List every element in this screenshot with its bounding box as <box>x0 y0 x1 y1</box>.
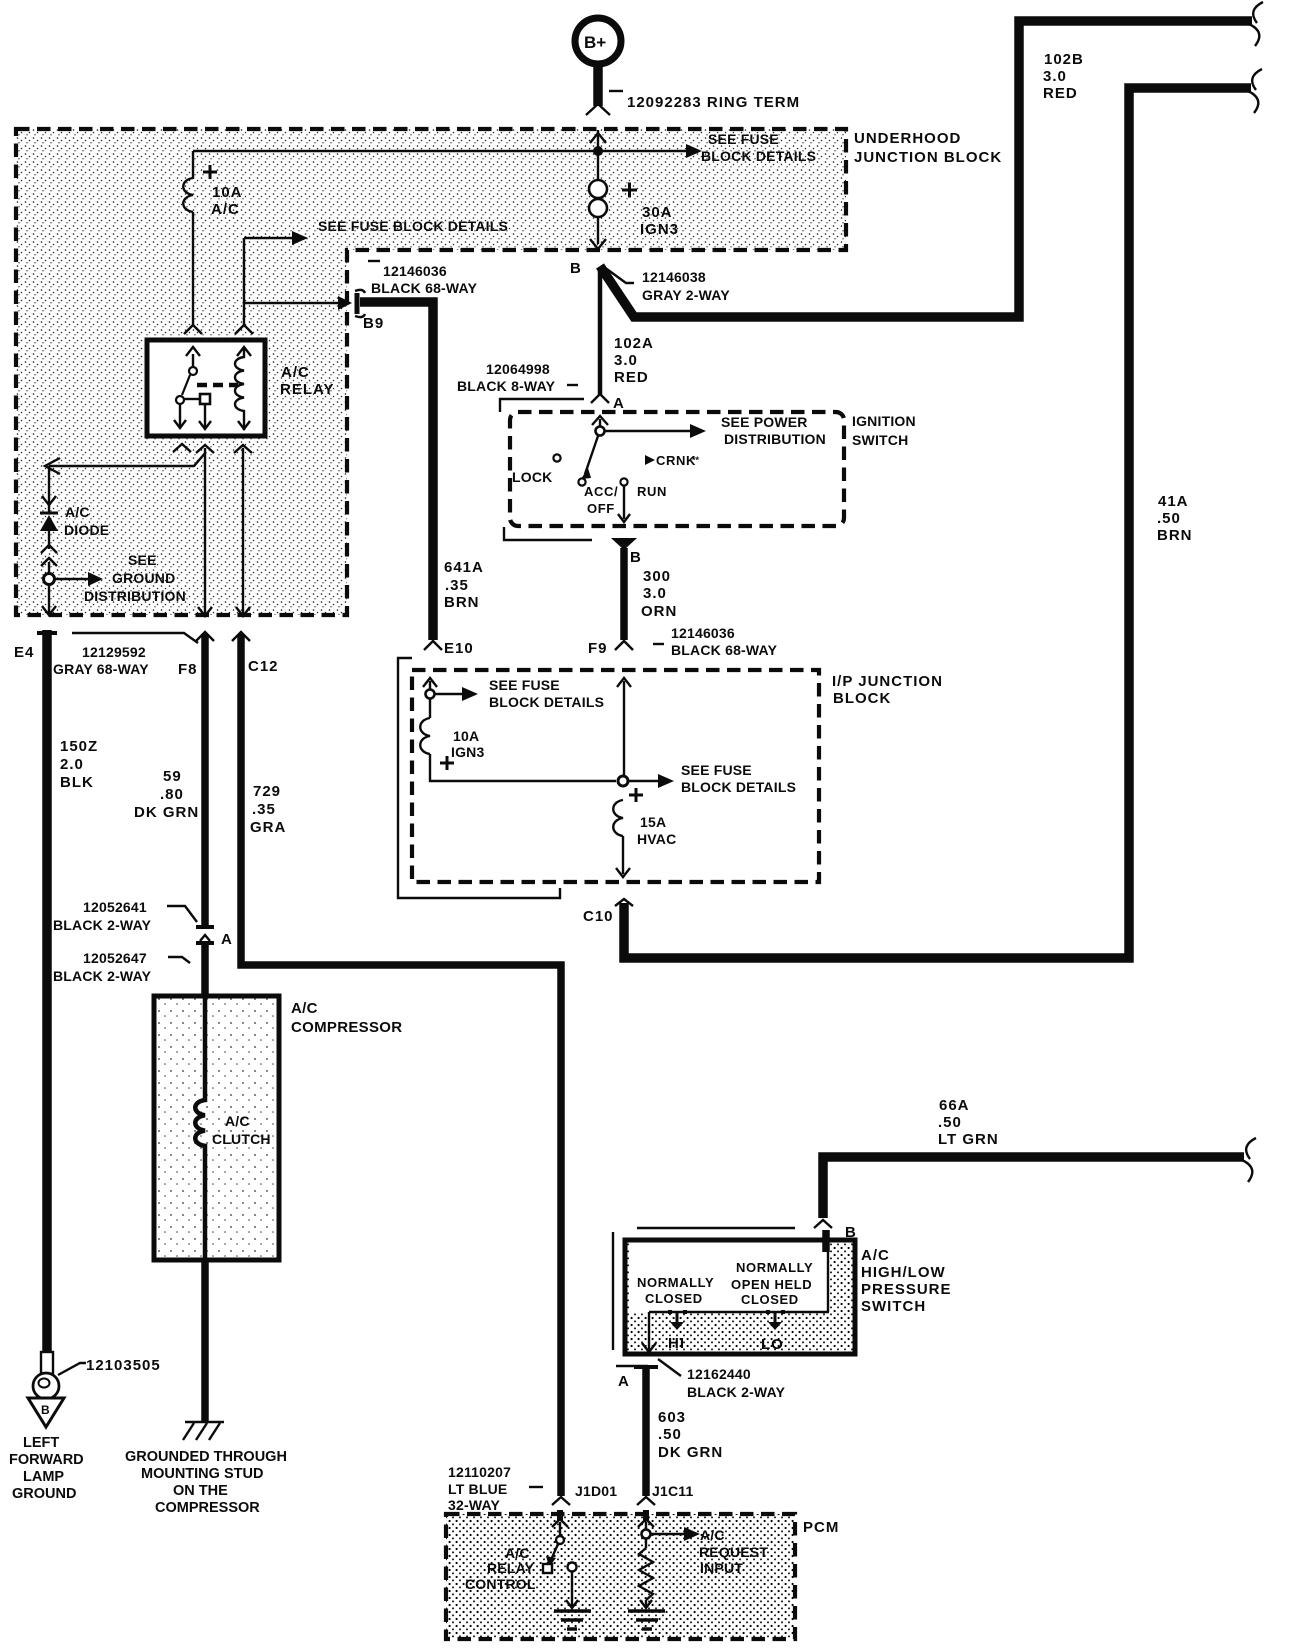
wire 300 ORN ignition B to F9 <box>620 548 628 640</box>
ground symbol PCM right <box>645 1600 647 1606</box>
svg-text:DIODE: DIODE <box>64 522 109 538</box>
svg-text:.50: .50 <box>658 1426 682 1443</box>
svg-text:NORMALLY: NORMALLY <box>637 1275 714 1290</box>
svg-text:12146036: 12146036 <box>383 263 447 279</box>
chassis ground at compressor <box>183 1422 224 1440</box>
svg-text:A/C: A/C <box>700 1527 725 1543</box>
svg-text:F9: F9 <box>588 640 608 657</box>
svg-text:UNDERHOOD: UNDERHOOD <box>854 130 961 147</box>
svg-text:B+: B+ <box>584 33 606 52</box>
PCM relay control switch <box>543 1510 578 1608</box>
svg-text:**: ** <box>692 455 700 465</box>
svg-text:OFF: OFF <box>587 501 615 516</box>
svg-text:SWITCH: SWITCH <box>852 432 908 448</box>
wire 66A LT GRN off-page to pressure switch B <box>823 1157 1244 1218</box>
svg-text:.35: .35 <box>252 801 276 818</box>
flare F9 <box>615 641 633 650</box>
svg-text:HI: HI <box>668 1335 685 1352</box>
svg-text:RELAY: RELAY <box>487 1560 535 1576</box>
diode D1 A/C DIODE <box>40 466 58 573</box>
off-page break symbol 66A <box>1242 1138 1256 1182</box>
contact LO <box>774 1312 777 1322</box>
svg-text:729: 729 <box>253 783 281 800</box>
wire node down to E4 <box>48 584 50 613</box>
svg-text:GROUNDED THROUGH: GROUNDED THROUGH <box>125 1449 287 1465</box>
svg-text:15A: 15A <box>640 814 666 830</box>
svg-text:BLACK 2-WAY: BLACK 2-WAY <box>53 968 152 984</box>
wire E10 leg inside block <box>423 678 437 687</box>
svg-text:BLACK 8-WAY: BLACK 8-WAY <box>457 378 556 394</box>
wire B+ entering block with up arrow <box>590 130 606 180</box>
connector face bracket around I/P block <box>398 658 560 898</box>
svg-text:A: A <box>613 395 625 412</box>
wire 641A BRN from B9 to E10 <box>360 302 433 640</box>
svg-text:3.0: 3.0 <box>614 352 638 369</box>
svg-text:12052641: 12052641 <box>83 899 147 915</box>
svg-text:.50: .50 <box>938 1114 962 1131</box>
arrow see fuse block details (ip lower) <box>628 780 658 782</box>
wire compressor to mounting stud ground <box>201 1258 209 1422</box>
svg-text:A: A <box>618 1373 630 1390</box>
plus mark 15A <box>629 788 643 802</box>
svg-text:10A: 10A <box>453 728 479 744</box>
wire 150Z E4 to left lamp ground <box>42 630 52 1354</box>
svg-text:A/C: A/C <box>65 504 90 520</box>
svg-text:10A: 10A <box>212 184 243 201</box>
svg-text:PRESSURE: PRESSURE <box>861 1281 952 1298</box>
resistor in PCM <box>639 1548 653 1600</box>
svg-text:12064998: 12064998 <box>486 361 550 377</box>
label CRNK <box>645 455 655 465</box>
svg-text:DISTRIBUTION: DISTRIBUTION <box>84 588 186 604</box>
svg-text:BLOCK DETAILS: BLOCK DETAILS <box>701 148 816 164</box>
flare J1D01 <box>552 1497 570 1505</box>
svg-text:B9: B9 <box>363 315 384 332</box>
svg-text:30A: 30A <box>642 204 673 221</box>
svg-text:603: 603 <box>658 1409 686 1426</box>
wire coil feed vertical <box>243 238 245 326</box>
svg-text:SWITCH: SWITCH <box>861 1298 926 1315</box>
wire F9 leg inside block <box>617 678 631 687</box>
arrow see fuse block details (ip upper) <box>435 693 462 695</box>
pressure switch inner white area <box>630 1243 830 1312</box>
svg-text:DK GRN: DK GRN <box>658 1444 723 1461</box>
svg-text:B: B <box>41 1403 50 1417</box>
svg-text:BLK: BLK <box>60 774 94 791</box>
svg-text:BRN: BRN <box>444 594 480 611</box>
wire breaker down to edge with arrow <box>590 218 606 249</box>
label 12129592 GRAY 68-WAY with leader <box>72 633 198 643</box>
svg-text:ACC/: ACC/ <box>584 484 618 499</box>
svg-text:SEE FUSE BLOCK DETAILS: SEE FUSE BLOCK DETAILS <box>318 218 508 234</box>
node junction 15A <box>618 776 628 786</box>
svg-text:RUN: RUN <box>637 484 667 499</box>
underhood junction block stipple fill <box>16 129 846 615</box>
wire 102A RED to ignition switch <box>598 268 603 395</box>
contact HI <box>676 1312 679 1322</box>
PCM dashed box <box>446 1514 795 1639</box>
svg-text:CONTROL: CONTROL <box>465 1576 536 1592</box>
svg-text:IGN3: IGN3 <box>640 221 679 238</box>
svg-text:12052647: 12052647 <box>83 950 147 966</box>
svg-text:RELAY: RELAY <box>280 381 334 398</box>
wire B pin into switch <box>822 1230 830 1252</box>
svg-text:BLACK 68-WAY: BLACK 68-WAY <box>671 642 778 658</box>
svg-text:A/C: A/C <box>281 364 310 381</box>
svg-text:BLOCK DETAILS: BLOCK DETAILS <box>681 779 796 795</box>
svg-text:ORN: ORN <box>641 603 677 620</box>
svg-text:C12: C12 <box>248 658 279 675</box>
wire switch output to A pin <box>648 1312 650 1350</box>
svg-text:BLACK 68-WAY: BLACK 68-WAY <box>371 280 478 296</box>
svg-text:41A: 41A <box>1158 493 1189 510</box>
wire 102B RED thick to off-page <box>600 21 1252 317</box>
svg-text:F8: F8 <box>178 661 198 678</box>
svg-text:102B: 102B <box>1044 51 1084 68</box>
svg-text:A/C: A/C <box>291 1000 318 1017</box>
label 12146036 BLACK 68-WAY (upper) <box>368 260 380 262</box>
svg-text:COMPRESSOR: COMPRESSOR <box>155 1500 260 1516</box>
svg-text:.35: .35 <box>445 577 469 594</box>
connector 12146038 GRAY 2-WAY with leader <box>604 267 634 283</box>
ignition B pin triangle <box>611 538 637 550</box>
flare J1C11 <box>637 1497 655 1505</box>
svg-text:JUNCTION BLOCK: JUNCTION BLOCK <box>854 149 1002 166</box>
A/C high/low pressure switch box <box>625 1240 855 1354</box>
svg-text:LT GRN: LT GRN <box>938 1131 999 1148</box>
connector bracket below ignition switch <box>504 527 592 540</box>
svg-text:INPUT: INPUT <box>700 1560 743 1576</box>
svg-text:3.0: 3.0 <box>643 585 667 602</box>
svg-text:12146036: 12146036 <box>671 625 735 641</box>
off-page break symbol top right <box>1249 2 1263 46</box>
svg-text:102A: 102A <box>614 335 654 352</box>
svg-text:CLOSED: CLOSED <box>645 1291 703 1306</box>
svg-text:66A: 66A <box>939 1097 970 1114</box>
svg-text:BLACK 2-WAY: BLACK 2-WAY <box>687 1384 786 1400</box>
svg-text:BLOCK: BLOCK <box>833 690 891 707</box>
svg-text:641A: 641A <box>444 559 484 576</box>
wire 41A BRN C10 to off-page right <box>624 88 1251 958</box>
svg-text:12092283 RING TERM: 12092283 RING TERM <box>627 94 800 111</box>
svg-text:SEE FUSE: SEE FUSE <box>708 131 779 147</box>
connector C12 <box>232 632 250 641</box>
svg-text:PCM: PCM <box>803 1519 839 1536</box>
svg-text:SEE: SEE <box>128 552 157 568</box>
svg-text:E4: E4 <box>14 644 34 661</box>
flare at ignition A pin <box>591 394 609 403</box>
ignition switch interior <box>553 416 706 522</box>
connector E4 <box>37 631 57 635</box>
svg-text:BLOCK DETAILS: BLOCK DETAILS <box>489 694 604 710</box>
svg-text:59: 59 <box>163 768 182 785</box>
ground symbol PCM left <box>554 1611 591 1629</box>
svg-text:RED: RED <box>614 369 649 386</box>
connector B9 bracket <box>355 293 360 314</box>
svg-text:IGNITION: IGNITION <box>852 413 916 429</box>
svg-text:J1D01: J1D01 <box>575 1483 617 1499</box>
svg-text:COMPRESSOR: COMPRESSOR <box>291 1019 402 1036</box>
svg-text:12110207: 12110207 <box>448 1464 511 1480</box>
battery terminal B+ <box>575 18 621 115</box>
wire 15A down to C10 <box>622 836 624 874</box>
PCM request input node <box>638 1510 700 1548</box>
svg-text:FORWARD: FORWARD <box>9 1452 84 1468</box>
wire arrow to ground distribution <box>54 578 88 580</box>
wire 729 GRA C12 to PCM J1D01 <box>241 634 561 1496</box>
connector bracket above ignition switch <box>500 399 584 412</box>
svg-text:CLUTCH: CLUTCH <box>212 1131 271 1147</box>
svg-text:CLOSED: CLOSED <box>741 1292 799 1307</box>
flare wire end above relay right <box>235 325 253 334</box>
svg-text:A: A <box>221 931 233 948</box>
svg-text:300: 300 <box>643 568 671 585</box>
svg-text:I/P JUNCTION: I/P JUNCTION <box>832 673 943 690</box>
svg-text:.50: .50 <box>1157 510 1181 527</box>
svg-text:32-WAY: 32-WAY <box>448 1497 501 1513</box>
svg-text:GRAY 2-WAY: GRAY 2-WAY <box>642 287 730 303</box>
svg-text:C10: C10 <box>583 908 614 925</box>
flares below relay pins <box>173 444 191 452</box>
relay actuation dashed link <box>197 383 238 388</box>
svg-text:LOCK: LOCK <box>512 469 552 485</box>
relay top terminal arrows <box>186 347 251 356</box>
wire 59 lower segment to compressor <box>201 943 209 998</box>
svg-text:2.0: 2.0 <box>60 756 84 773</box>
svg-text:GRA: GRA <box>250 819 286 836</box>
svg-text:150Z: 150Z <box>60 738 98 755</box>
circuit breaker 30A IGN3 <box>589 180 637 217</box>
A/C clutch coil inside compressor <box>195 998 205 1258</box>
fuse 15A HVAC <box>613 800 623 836</box>
svg-text:3.0: 3.0 <box>1043 68 1067 85</box>
svg-text:BRN: BRN <box>1157 527 1193 544</box>
PCM stipple fill <box>446 1514 795 1639</box>
underhood junction block dashed border <box>16 129 846 615</box>
svg-text:LO: LO <box>761 1336 784 1353</box>
node at fuse top <box>426 690 435 699</box>
svg-text:A/C: A/C <box>211 201 240 218</box>
svg-text:E10: E10 <box>444 640 474 657</box>
svg-text:NORMALLY: NORMALLY <box>736 1260 813 1275</box>
label 12092283 RING TERM <box>609 90 623 92</box>
svg-text:A/C: A/C <box>505 1545 530 1561</box>
svg-text:B: B <box>570 260 582 277</box>
svg-text:A/C: A/C <box>225 1113 250 1129</box>
svg-text:GROUND: GROUND <box>12 1486 76 1502</box>
label 12146036 BLACK 68-WAY (lower) <box>653 643 664 645</box>
inline connector break on wire 59 <box>196 925 214 929</box>
node junction at bus <box>593 146 603 156</box>
relay coil <box>235 347 250 430</box>
wire relay coil pin down to C12 <box>242 448 244 614</box>
svg-text:LAMP: LAMP <box>23 1469 64 1485</box>
svg-text:IGN3: IGN3 <box>451 744 484 760</box>
svg-text:GROUND: GROUND <box>112 570 175 586</box>
wire branch to B9 connector <box>244 302 338 304</box>
switch contact bar <box>649 1311 829 1313</box>
off-page break symbol 41A <box>1248 69 1262 113</box>
svg-text:GRAY 68-WAY: GRAY 68-WAY <box>53 661 149 677</box>
node ground distribution <box>44 574 55 585</box>
wire fuse to junction node <box>430 754 616 781</box>
svg-text:SEE FUSE: SEE FUSE <box>681 762 752 778</box>
fuse 10A A/C <box>183 151 217 212</box>
svg-text:A/C: A/C <box>861 1247 890 1264</box>
flare pressure switch B pin <box>814 1220 832 1228</box>
svg-text:12103505: 12103505 <box>86 1357 161 1374</box>
wire 603 DK GRN to PCM J1C11 <box>642 1367 650 1496</box>
relay switch contact <box>174 354 211 429</box>
svg-text:12162440: 12162440 <box>687 1366 751 1382</box>
svg-text:MOUNTING STUD: MOUNTING STUD <box>141 1466 263 1482</box>
svg-text:LEFT: LEFT <box>23 1435 59 1451</box>
svg-text:DK GRN: DK GRN <box>134 804 199 821</box>
connector F8 <box>196 632 214 641</box>
label 12162440 BLACK 2-WAY with leader <box>658 1359 681 1376</box>
fuse 10A IGN3 <box>420 718 430 754</box>
svg-text:HIGH/LOW: HIGH/LOW <box>861 1264 946 1281</box>
svg-text:BLACK 2-WAY: BLACK 2-WAY <box>53 917 152 933</box>
label 12103505 with leader <box>58 1363 86 1375</box>
I/P junction block dashed box <box>412 670 819 882</box>
svg-text:LT BLUE: LT BLUE <box>448 1481 507 1497</box>
wire fuse down to relay <box>192 212 194 326</box>
svg-text:RED: RED <box>1043 85 1078 102</box>
svg-text:ON THE: ON THE <box>173 1483 228 1499</box>
svg-text:HVAC: HVAC <box>637 831 676 847</box>
A/C compressor box <box>154 996 279 1260</box>
pressure switch connector face bracket <box>613 1228 795 1366</box>
wire relay switch pin down to F8 <box>204 448 206 614</box>
wire 59 DK GRN F8 segment <box>201 634 209 925</box>
svg-text:REQUEST: REQUEST <box>699 1544 768 1560</box>
wire branch to see fuse details (left) <box>244 237 292 239</box>
svg-text:12146038: 12146038 <box>642 269 706 285</box>
svg-text:SEE POWER: SEE POWER <box>721 414 808 430</box>
ground symbol left forward lamp <box>28 1398 64 1427</box>
ignition switch dashed box <box>510 412 844 526</box>
wire branch to A/C diode <box>49 452 206 466</box>
svg-text:B: B <box>630 549 642 566</box>
wire horizontal bus to SEE FUSE BLOCK DETAILS <box>193 150 686 152</box>
svg-text:SEE FUSE: SEE FUSE <box>489 677 560 693</box>
svg-text:OPEN HELD: OPEN HELD <box>731 1277 812 1292</box>
relay U1 A/C RELAY box <box>147 340 265 436</box>
flare E10 <box>424 641 442 650</box>
svg-text:12129592: 12129592 <box>82 644 146 660</box>
flare wire end above relay left <box>184 325 202 334</box>
arrow to fuse block details <box>686 144 702 158</box>
svg-text:J1C11: J1C11 <box>652 1483 693 1499</box>
svg-text:DISTRIBUTION: DISTRIBUTION <box>724 431 826 447</box>
ring terminal 12103505 <box>33 1352 59 1399</box>
svg-text:.80: .80 <box>160 786 184 803</box>
svg-text:CRNK: CRNK <box>656 453 696 468</box>
